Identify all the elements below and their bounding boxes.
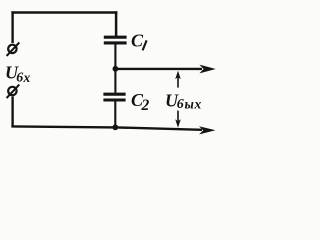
dimension arrow down bbox=[175, 111, 181, 128]
wire output top lead bbox=[115, 68, 202, 70]
capacitor C2 bbox=[103, 94, 125, 100]
wire left vertical upper bbox=[11, 11, 13, 43]
svg-text:ыx: ыx bbox=[185, 97, 202, 112]
svg-text:x: x bbox=[23, 70, 31, 85]
wire top horizontal bbox=[11, 11, 117, 14]
wire left vertical lower bbox=[11, 96, 13, 127]
terminal input upper bbox=[7, 43, 20, 56]
svg-text:6: 6 bbox=[16, 71, 23, 86]
capacitor C1 bbox=[104, 37, 127, 43]
arrowhead output bottom bbox=[199, 126, 216, 134]
wire C1 to junction bbox=[114, 44, 116, 69]
node junction lower bbox=[112, 124, 118, 130]
svg-text:2: 2 bbox=[141, 97, 150, 114]
wire right branch upper (top corner to C1) bbox=[115, 11, 118, 36]
svg-text:6: 6 bbox=[177, 97, 184, 112]
wire junction to C2 bbox=[114, 69, 116, 93]
svg-text:C: C bbox=[131, 31, 144, 51]
wire C2 to bottom bbox=[114, 101, 116, 128]
wire bottom horizontal bbox=[11, 126, 202, 129]
terminal input lower bbox=[7, 85, 20, 98]
dimension arrow up bbox=[175, 71, 181, 88]
node junction upper bbox=[113, 66, 119, 72]
arrowhead output top bbox=[199, 65, 215, 74]
